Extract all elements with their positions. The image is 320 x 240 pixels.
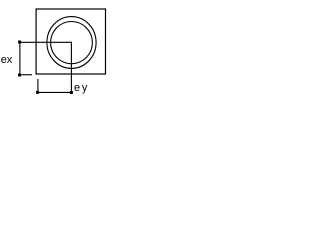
ex dimension vertical line [19,42,21,75]
background [0,0,115,100]
svg-text:ey: ey [74,82,89,94]
ey dimension horizontal line [38,91,72,93]
horizontal center line from node A to center [20,41,72,43]
outer circle of tube [47,17,96,69]
node A (top end of ex dimension) [18,41,21,44]
svg-text:ex: ex [1,54,13,66]
stub line from node B toward square corner [20,74,33,76]
node C (left end of ey dimension) [36,91,39,94]
node D (right end of ey dimension) [70,91,73,94]
inner circle of tube [51,21,93,63]
vertical center line from center down to ey line [70,42,72,93]
node B (bottom end of ex dimension) [18,74,21,77]
outer square section outline [36,9,105,74]
ey extension riser below square bottom-left [37,79,39,92]
